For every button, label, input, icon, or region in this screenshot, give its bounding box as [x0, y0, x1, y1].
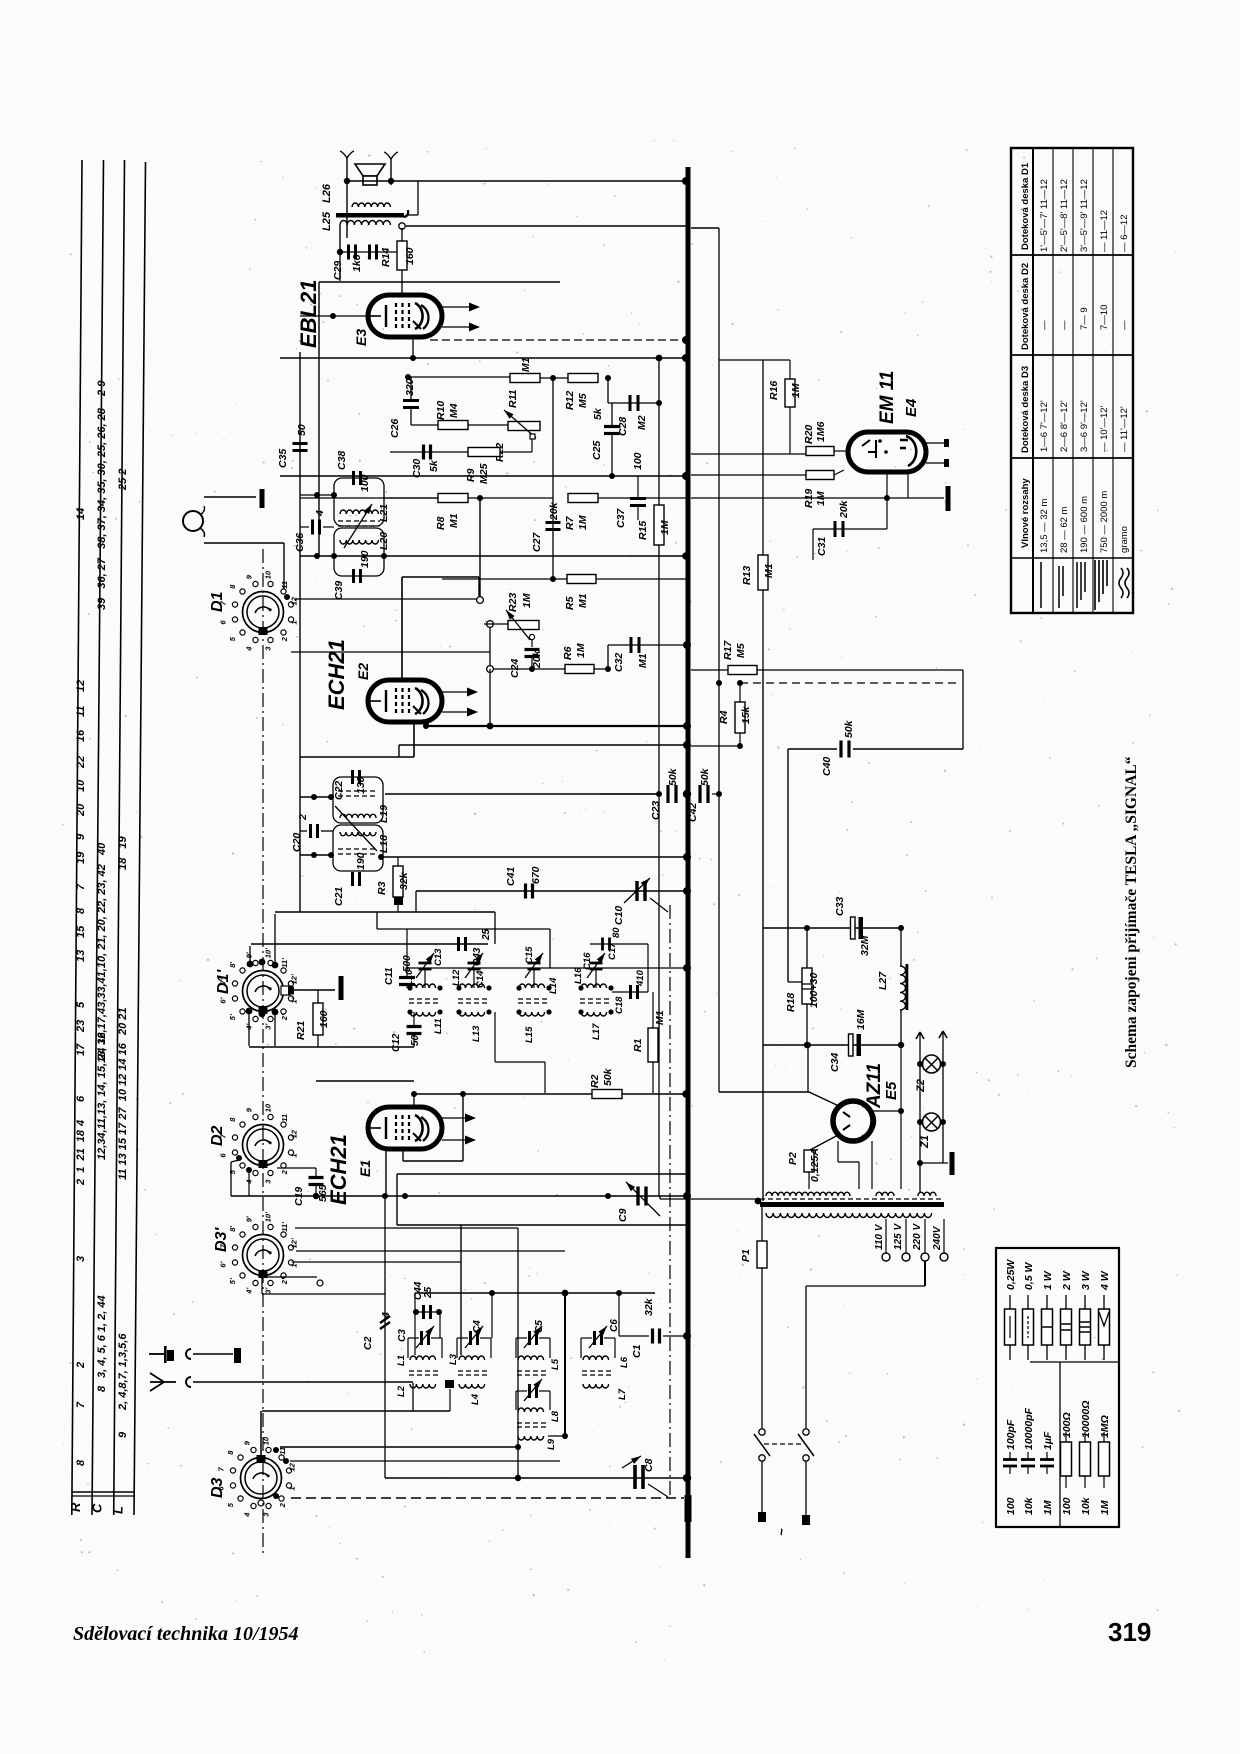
capacitor C29b [368, 245, 371, 260]
wire C5 end l [515, 1338, 517, 1358]
svg-text:565: 565 [317, 1184, 329, 1202]
junction y498 x887 [884, 495, 890, 501]
wire C24 down [531, 657, 533, 669]
svg-text:C25: C25 [591, 441, 603, 460]
svg-text:C4: C4 [472, 1320, 483, 1333]
wire D1' pin7 down [274, 1012, 276, 1046]
junction D1' pin2 [272, 962, 279, 969]
svg-text:8: 8 [228, 1117, 237, 1122]
wire C7 end r [549, 1391, 551, 1410]
svg-text:E2: E2 [355, 663, 371, 680]
wire AZ11 cath diag [810, 1134, 840, 1150]
heater winding b [918, 1192, 936, 1196]
svg-text:10000pF: 10000pF [1023, 1407, 1035, 1450]
wire C36 right [323, 526, 334, 528]
svg-text:C32: C32 [613, 653, 625, 672]
svg-text:—: — [1059, 320, 1070, 330]
svg-text:10k: 10k [1023, 1496, 1035, 1515]
svg-text:R11: R11 [507, 389, 519, 408]
wire R4 bottom [739, 733, 741, 746]
gang arrow C8 [622, 1456, 641, 1468]
junction y1045 x808 [805, 1042, 811, 1048]
svg-text:C21: C21 [333, 887, 345, 906]
wire bulbs gnd row [920, 1162, 948, 1164]
svg-text:24 32: 24 32 [96, 1032, 108, 1061]
wave table col line [1052, 148, 1054, 613]
legend res stripe 4a [1061, 1323, 1072, 1325]
svg-text:M1: M1 [448, 513, 460, 528]
junction y1199 x758 [755, 1198, 762, 1205]
wire E2 thick row y726 [426, 725, 686, 727]
capacitor C24 [525, 648, 540, 651]
tuning diagonal L18L19 [335, 806, 377, 851]
svg-text:C11: C11 [384, 967, 395, 985]
svg-text:100: 100 [1005, 1497, 1017, 1515]
legend divider h [1030, 1361, 1119, 1363]
svg-text:8: 8 [75, 907, 87, 914]
wire L12 stub [473, 970, 475, 988]
junction D2 pin9 [246, 1167, 252, 1173]
junction y1293 x492 [489, 1290, 495, 1296]
capacitor C27 [546, 521, 561, 524]
svg-text:6': 6' [218, 997, 227, 1003]
wire C3 end r [441, 1338, 443, 1358]
wire x659 lower [658, 545, 660, 1196]
svg-text:R2: R2 [589, 1074, 601, 1088]
junction bus top [682, 177, 690, 185]
resistor R15 [654, 505, 664, 545]
wire y797 stub [300, 796, 333, 798]
wire EM11 bottom v [886, 472, 888, 498]
legend res stripe 3 [1042, 1326, 1053, 1328]
legend res V mark [1099, 1312, 1109, 1326]
coil L11 [410, 1012, 436, 1016]
svg-text:C22: C22 [333, 781, 345, 800]
svg-text:9': 9' [244, 1216, 253, 1222]
wave symbol gramo [1119, 568, 1129, 598]
svg-text:R6: R6 [562, 646, 574, 660]
wire y757 row [300, 756, 414, 758]
wiper square R22 [530, 434, 535, 439]
junction D1' pin9 [246, 1008, 253, 1015]
junction L16 right [608, 985, 613, 990]
svg-text:12': 12' [290, 1238, 299, 1248]
svg-text:1'—5'—7' 11—12: 1'—5'—7' 11—12 [1039, 179, 1050, 252]
wire y1174 long [397, 1173, 686, 1175]
svg-text:8': 8' [228, 1226, 237, 1232]
wave symbol LW [1094, 560, 1096, 610]
wire D1 pin11 row [295, 598, 477, 600]
svg-text:5': 5' [228, 1014, 237, 1020]
transformer secondary winding [766, 1213, 932, 1218]
svg-text:2: 2 [280, 636, 289, 642]
svg-text:3: 3 [264, 646, 273, 651]
trimmer capacitor above L14 [528, 962, 541, 965]
wire D3b pin10 row [296, 1250, 565, 1252]
svg-text:P2: P2 [787, 1152, 799, 1165]
resistor R7 [568, 494, 598, 503]
capacitor C6 [593, 1331, 596, 1345]
wire y498 row right [468, 497, 553, 499]
svg-text:8: 8 [228, 584, 237, 589]
speaker cone [355, 164, 385, 176]
lamp Z1 [923, 1113, 941, 1131]
svg-text:2: 2 [278, 1502, 287, 1508]
tube ECH21 E2 [368, 680, 442, 722]
variable capacitor C10 [635, 881, 638, 901]
wiper circle R23 [529, 634, 534, 639]
resistor R14 [397, 241, 407, 270]
svg-text:5: 5 [75, 1001, 87, 1008]
wire wiper down [531, 439, 533, 452]
ruler line R-left [72, 160, 82, 1515]
wire R18 tap [788, 981, 802, 983]
wire y1293 row [415, 1292, 655, 1294]
core dashes L18b [338, 853, 378, 855]
dash-dot gang line x672 [669, 905, 671, 1496]
svg-text:R13: R13 [741, 566, 753, 585]
gang diag line C8 [648, 1484, 668, 1497]
wire x608 up [607, 645, 609, 669]
svg-text:M1: M1 [520, 357, 532, 372]
wire x490 lower [489, 669, 491, 726]
switch contact 1b [759, 1455, 765, 1461]
svg-text:5: 5 [228, 1169, 237, 1174]
junction y928 x807 [804, 925, 810, 931]
svg-text:4: 4 [244, 646, 253, 652]
junction D1' pin7 [272, 1009, 279, 1016]
wire R5 to bus [596, 578, 686, 580]
wire y495 row [300, 494, 334, 496]
svg-text:190: 190 [359, 550, 371, 568]
svg-text:50k: 50k [843, 719, 855, 738]
svg-text:6: 6 [75, 1095, 87, 1102]
svg-text:L12: L12 [451, 969, 462, 986]
wire y1225 row [397, 1224, 686, 1226]
capacitor C4 [469, 1331, 472, 1345]
wire C25 vert [611, 403, 613, 426]
earth input lead [149, 1353, 164, 1355]
junction y358 x659 [656, 355, 663, 362]
coil L19 [340, 814, 376, 818]
wire C5 row b [539, 1337, 550, 1339]
rotary switch D3 [241, 1458, 282, 1499]
svg-text:M1: M1 [637, 653, 649, 668]
core L12 a [458, 998, 490, 1000]
coil L12 [459, 984, 485, 988]
coil L25 [340, 221, 390, 226]
bulb hook 1 [916, 1032, 924, 1039]
capacitor C31 [834, 521, 837, 537]
junction x659 y403 [656, 400, 662, 406]
tap circle 125V [902, 1253, 910, 1261]
svg-text:Z1: Z1 [919, 1135, 931, 1149]
junction y498 x480 [477, 495, 483, 501]
wire R18 top [806, 928, 808, 968]
svg-text:L21: L21 [378, 504, 390, 522]
wire AZ step2 [838, 1161, 859, 1163]
coil L15 [519, 1012, 545, 1016]
junction y669 x608 [605, 666, 611, 672]
wire x461 col [460, 1225, 462, 1355]
wire y577 row [402, 576, 479, 578]
trimmer arrow L10 [416, 953, 434, 978]
svg-text:2: 2 [75, 1362, 87, 1369]
terminal circle y669 [487, 666, 494, 673]
junction L12 left [456, 985, 461, 990]
wire x415 col [414, 1293, 416, 1355]
wire AZ step3 [858, 1162, 860, 1189]
wire C12 down [413, 1034, 415, 1047]
wire AZ step1 [837, 1141, 839, 1162]
coil L10 [410, 984, 436, 988]
capacitor C39 [352, 569, 355, 583]
junction bus y358 [682, 354, 690, 362]
fuse P2 [804, 1150, 814, 1172]
wire E3 grid [300, 315, 368, 317]
junction bus y891 [683, 887, 691, 895]
junction y794 x719 [716, 791, 722, 797]
svg-text:240V: 240V [932, 1225, 943, 1251]
wire y1092 row [719, 1091, 809, 1093]
wire C29 row [340, 251, 397, 253]
svg-text:50: 50 [410, 1034, 421, 1046]
wire x648 col [647, 944, 649, 992]
svg-text:M4: M4 [448, 403, 460, 418]
arrow E1 out1 [442, 1117, 474, 1119]
junction y1045 x901 [898, 1042, 904, 1048]
svg-text:25 2: 25 2 [117, 462, 129, 491]
svg-text:9: 9 [242, 1440, 251, 1445]
junction y857 x381 [378, 854, 384, 860]
junction L14 right [546, 985, 551, 990]
junction D3 pin5 [273, 1493, 279, 1499]
legend resistor symbol 5 [1103, 1295, 1105, 1309]
svg-text:1M: 1M [575, 643, 587, 658]
wire prim left [761, 1207, 763, 1241]
wire L27 bottom [900, 1010, 902, 1045]
svg-text:C: C [90, 1503, 105, 1513]
capacitor C36 [311, 520, 314, 535]
svg-text:C30: C30 [411, 459, 423, 478]
junction y669 x532 [529, 666, 535, 672]
wire R13 top [762, 360, 764, 555]
wire D1' pin9 down [248, 1011, 250, 1046]
core L6 b [582, 1374, 614, 1376]
resistor R3 [393, 866, 403, 897]
svg-text:14: 14 [75, 508, 87, 520]
svg-text:5k: 5k [592, 407, 604, 420]
svg-text:100: 100 [359, 474, 371, 492]
svg-text:C41: C41 [505, 867, 517, 886]
svg-text:9: 9 [244, 574, 253, 579]
wire y1081 row [316, 1080, 414, 1082]
EM11 internals [862, 440, 876, 458]
coil L17 [581, 1012, 607, 1016]
core L5 a [517, 1370, 549, 1372]
wire R18 bottom [806, 1004, 808, 1045]
wire IFcan right to R8 [384, 497, 438, 499]
svg-text:2: 2 [297, 814, 309, 821]
svg-text:750 — 2000 m: 750 — 2000 m [1099, 491, 1110, 553]
wire R3 bottom [397, 905, 399, 912]
junction C29 left [337, 249, 343, 255]
ruler footer sep 1 [72, 1491, 134, 1493]
mains terminal 1 [758, 1512, 766, 1522]
trimmer arrow R22 [504, 410, 536, 438]
wire C26 bottom [410, 408, 412, 425]
svg-text:9: 9 [75, 833, 87, 840]
wave table row line [1011, 557, 1133, 559]
trimmer arrow C4 [465, 1326, 483, 1348]
svg-text:16: 16 [75, 729, 87, 742]
svg-text:319: 319 [1108, 1617, 1151, 1647]
wire y794 left [600, 793, 661, 795]
wire E3 anode top [401, 281, 403, 295]
svg-text:6': 6' [218, 1261, 227, 1267]
earth input blob [167, 1350, 174, 1361]
junction D1 pin8 [284, 594, 290, 600]
junction speaker left [344, 178, 350, 184]
legend resistor symbol 1 [1027, 1295, 1029, 1309]
svg-text:15: 15 [75, 925, 87, 938]
svg-text:L25: L25 [321, 211, 333, 231]
svg-text:320: 320 [404, 378, 416, 396]
svg-text:R14: R14 [380, 248, 392, 267]
svg-text:L27: L27 [877, 971, 889, 990]
wire C7 row b [539, 1390, 550, 1392]
legend table border [996, 1248, 1119, 1527]
svg-text:32M: 32M [859, 935, 871, 956]
svg-text:1M: 1M [790, 383, 802, 398]
gang arrow C10 [624, 878, 650, 903]
wire C28 row [608, 402, 659, 404]
capacitor C17 [601, 938, 604, 951]
junction bus y726 [683, 722, 691, 730]
svg-text:6: 6 [218, 1153, 227, 1158]
legend res stripe 5b [1080, 1326, 1091, 1328]
svg-text:160: 160 [318, 1010, 330, 1028]
wire x495 down [494, 912, 496, 944]
svg-text:— 6—12: — 6—12 [1119, 215, 1130, 253]
junction L13 left [456, 1009, 461, 1014]
wire y745 long row [399, 744, 686, 746]
resistor R16 [785, 379, 795, 407]
svg-text:17: 17 [75, 1043, 87, 1056]
terminal square R3 [394, 897, 403, 905]
svg-text:8': 8' [228, 962, 237, 968]
svg-text:C40: C40 [821, 757, 833, 776]
junction D3 pin3 [283, 1458, 289, 1464]
gang diag line C10 [650, 898, 668, 912]
svg-text:5k: 5k [428, 459, 440, 472]
wave symbol MW [1076, 562, 1078, 608]
ground bar EM11 [946, 486, 951, 511]
wire R6 right [594, 668, 608, 670]
svg-text:AZ11: AZ11 [864, 1063, 885, 1109]
transformer core dashed [760, 1198, 944, 1200]
wire frame vert x319 [318, 282, 320, 556]
coil L2 [410, 1384, 436, 1388]
svg-text:0,125A: 0,125A [809, 1148, 821, 1182]
svg-text:9': 9' [244, 952, 253, 958]
capacitor C21 [351, 872, 354, 886]
svg-text:C26: C26 [389, 419, 401, 438]
junction L15 left [516, 1009, 521, 1014]
terminal circle y1283 [317, 1280, 323, 1286]
svg-text:C12: C12 [391, 1033, 402, 1052]
junction y1094 x463 [460, 1091, 466, 1097]
wire 220V down [924, 1261, 926, 1286]
trimmer capacitor above L12 [468, 962, 481, 965]
tap circle 220V [921, 1253, 929, 1261]
svg-text:Doteková deska D3: Doteková deska D3 [1020, 366, 1031, 453]
trimmer arrow C6 [589, 1326, 607, 1348]
coil L27 [900, 966, 906, 1010]
svg-text:R18: R18 [785, 993, 797, 1012]
junction L11 right [437, 1009, 442, 1014]
potentiometer R22 [508, 422, 540, 431]
svg-text:12': 12' [290, 974, 299, 984]
capacitor C9 [636, 1187, 639, 1206]
svg-text:8: 8 [226, 1450, 235, 1455]
core L5 b [517, 1374, 549, 1376]
bus bottom thick end [685, 1495, 692, 1522]
wire R21 top [317, 990, 319, 1003]
svg-text:20 21: 20 21 [117, 1007, 129, 1036]
rotary switch D1' [243, 971, 284, 1012]
core dashes L19a [338, 790, 378, 792]
junction y1447 x518 [515, 1444, 521, 1450]
svg-text:4': 4' [244, 1288, 253, 1295]
wire y498 right row [691, 497, 944, 499]
svg-text:2, 4,8,7, 1,3,5,6: 2, 4,8,7, 1,3,5,6 [117, 1333, 129, 1411]
wire P2 bottom [808, 1172, 810, 1189]
wire x608 down [607, 378, 609, 403]
core L16 b [580, 1002, 612, 1004]
capacitor C23 [666, 785, 669, 803]
wire C4 end r [490, 1338, 492, 1358]
main HT bus [686, 167, 691, 1558]
svg-text:1M: 1M [1099, 1500, 1111, 1515]
svg-text:R: R [68, 1502, 83, 1512]
arrow E1 out2 [442, 1139, 474, 1141]
svg-text:C29: C29 [332, 261, 344, 280]
dash-dot switch shaft line [262, 549, 264, 1556]
ground bar bulbs [950, 1152, 955, 1175]
svg-text:M1: M1 [654, 1010, 666, 1025]
speaker terminal hook right [384, 152, 398, 159]
wire C3 row a [408, 1337, 419, 1339]
svg-text:190 — 600 m: 190 — 600 m [1079, 496, 1090, 553]
svg-text:11 13 15 17 27 10 12 14 16: 11 13 15 17 27 10 12 14 16 [117, 1042, 129, 1180]
core dashes L18a [338, 848, 378, 850]
core L16 a [580, 998, 612, 1000]
svg-text:— 11'—12': — 11'—12' [1119, 406, 1130, 452]
junction C44 left [413, 1309, 419, 1315]
core L8 b [517, 1426, 549, 1428]
legend resistor value symbol 0 [1065, 1432, 1067, 1442]
wire E2 anode pin [427, 722, 429, 726]
rotary switch D2 [243, 1125, 284, 1166]
svg-text:7— 9: 7— 9 [1079, 307, 1090, 330]
svg-text:4: 4 [75, 1120, 87, 1127]
wire x808 col [807, 1045, 809, 1092]
arrow E3 out1 [442, 306, 478, 308]
wire y794 from L19 [385, 793, 661, 795]
phono hook bottom [200, 528, 205, 537]
svg-text:C39: C39 [333, 581, 345, 600]
